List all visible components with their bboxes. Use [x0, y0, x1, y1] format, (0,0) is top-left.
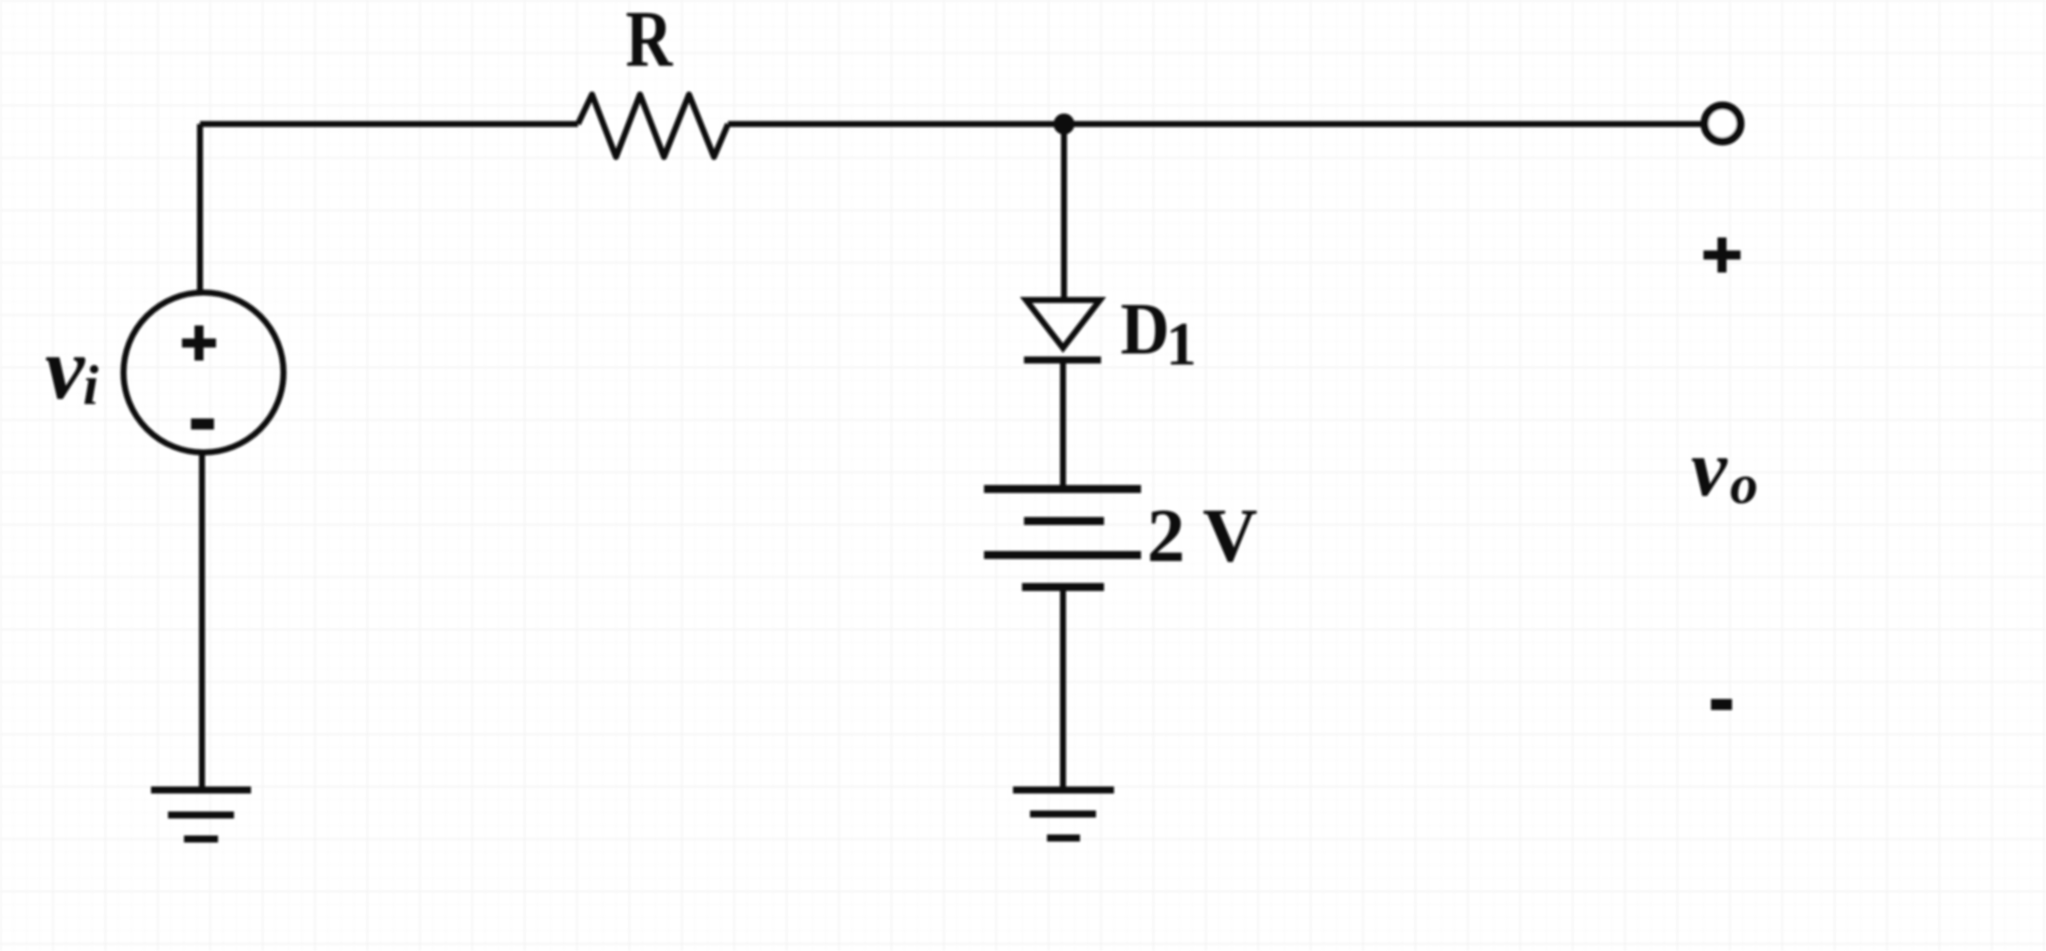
- svg-text:R: R: [626, 0, 674, 84]
- svg-text:v: v: [1691, 423, 1728, 513]
- svg-text:v: v: [45, 320, 86, 418]
- svg-text:1: 1: [1166, 312, 1197, 379]
- svg-text:2 V: 2 V: [1147, 494, 1258, 578]
- svg-text:i: i: [83, 355, 99, 417]
- svg-text:D: D: [1121, 289, 1170, 371]
- svg-text:o: o: [1730, 454, 1758, 516]
